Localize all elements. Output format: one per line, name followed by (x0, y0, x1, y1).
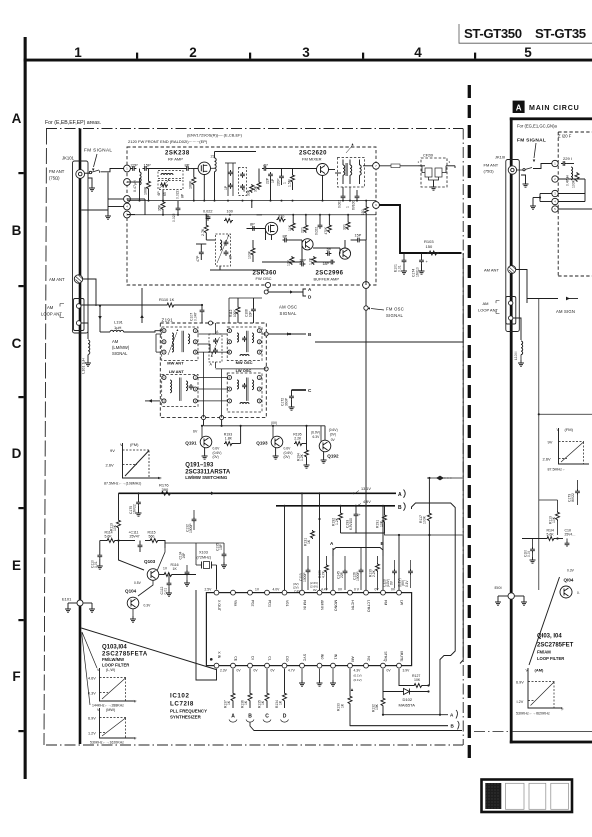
svg-text:SIGNAL: SIGNAL (280, 311, 298, 316)
left page bottom chain border (46, 744, 463, 746)
right AM loop block (506, 297, 516, 325)
svg-text:ST-GT35: ST-GT35 (535, 26, 586, 41)
svg-text:3P: 3P (229, 254, 233, 259)
svg-text:0.022: 0.022 (203, 210, 213, 214)
wire CF201 out (418, 166, 455, 168)
IC102 bottom pins (214, 651, 410, 672)
svg-text:35K: 35K (158, 204, 162, 211)
svg-text:(75Ω): (75Ω) (49, 176, 60, 181)
AM antenna terminal (74, 275, 82, 283)
top bar tick marks (136, 53, 476, 59)
svg-text:6.3V100: 6.3V100 (349, 518, 353, 530)
resistor 220 (301, 224, 308, 233)
long rail to right page (315, 341, 463, 343)
transistor 2SC2996 a (302, 239, 313, 250)
Q191 voltages (213, 447, 222, 460)
header rule (459, 24, 592, 43)
right label FM ANT (484, 163, 499, 174)
right AM terminal (508, 266, 516, 274)
label 0.5V (134, 581, 142, 585)
ABCD bus wire (250, 723, 462, 731)
svg-text:STRQ: STRQ (383, 651, 387, 661)
vertical route R127 (428, 477, 430, 686)
svg-text:0.3V: 0.3V (144, 604, 152, 608)
label FM OSC SIGNAL (367, 307, 404, 319)
wire LW drop (398, 534, 400, 591)
front end misc wires (127, 169, 366, 286)
svg-text:(ENV1729OS(R))–– (E,CB,EF): (ENV1729OS(R))–– (E,CB,EF) (187, 133, 243, 138)
osc coil dashed box (216, 234, 233, 266)
svg-text:L10I I: L10I I (514, 351, 518, 360)
crystal X103 (196, 551, 217, 569)
svg-text:1.2K: 1.2K (309, 257, 313, 265)
svg-text:FM ANT: FM ANT (49, 169, 65, 174)
svg-text:1: 1 (74, 45, 82, 60)
resistor R115 560 (145, 531, 165, 549)
LW tuning graph (88, 668, 137, 708)
right pin column (552, 160, 558, 212)
FM tuning voltage graph (104, 442, 163, 486)
label IC102 LC7218 (170, 693, 207, 720)
capacitor 33P (300, 259, 307, 267)
svg-text:560: 560 (149, 535, 155, 539)
Z191 dashed box (160, 323, 266, 418)
LW OSC pins (228, 376, 262, 404)
left page left border (44, 129, 47, 746)
vertical route A (412, 503, 456, 715)
right FM switch (517, 168, 532, 171)
grid column numbers (74, 45, 532, 60)
connector JK101 body (73, 161, 89, 333)
svg-text:100: 100 (227, 210, 233, 214)
stub A D wires (268, 288, 306, 296)
label AM LOOP ANT (41, 304, 64, 318)
transistor 2SC2620 (317, 164, 329, 176)
FM input switch (89, 170, 99, 174)
capacitor C113 1000P (299, 556, 310, 590)
svg-text:I6V22: I6V22 (571, 493, 575, 502)
transistor Q191 (185, 425, 212, 448)
svg-text:+: + (359, 513, 361, 517)
svg-text:8P: 8P (250, 223, 255, 227)
front-end bus upper (127, 200, 376, 202)
mixer transformer parts (338, 187, 360, 210)
resistor 100K rf (144, 180, 151, 195)
svg-text:D: D (283, 714, 287, 720)
resistor 330 buf (343, 221, 350, 230)
stub B wire (266, 332, 306, 335)
svg-text:P02: P02 (250, 600, 254, 606)
label MW OSC (236, 360, 253, 365)
svg-text:Q193: Q193 (256, 441, 268, 446)
svg-text:1: 1 (283, 182, 287, 184)
capacitor 18P (323, 260, 335, 266)
svg-text:RF AMP: RF AMP (168, 157, 183, 162)
Q192 collector wire (307, 426, 326, 440)
svg-text:E101: E101 (62, 597, 72, 602)
label AM ANT (49, 277, 65, 282)
connector E101 (62, 597, 95, 613)
capacitor 2P (326, 248, 332, 256)
capacitor 8P rf (185, 163, 191, 171)
svg-text:6V: 6V (193, 430, 198, 434)
wire fet drain chain (211, 152, 257, 169)
right jack ground (521, 175, 529, 187)
label JK101 (62, 156, 75, 161)
resistor R194 1.2K (297, 444, 310, 469)
resistor 1.2K buf (309, 256, 316, 265)
resistor R137 1K (224, 669, 235, 708)
svg-text:LOOP FILTER: LOOP FILTER (102, 663, 129, 668)
svg-text:SYNTHESIZER: SYNTHESIZER (170, 715, 202, 720)
svg-text:B: B (398, 505, 402, 511)
svg-text:390P: 390P (285, 397, 289, 406)
svg-text:JK101: JK101 (62, 156, 75, 161)
svg-text:1K: 1K (173, 567, 178, 571)
svg-text:4: 4 (414, 45, 422, 60)
svg-text:E: E (12, 558, 21, 573)
svg-text:0.47μH: 0.47μH (565, 174, 569, 186)
svg-text:MW ANT: MW ANT (167, 361, 184, 366)
right label 0.3V (567, 569, 575, 573)
registration bar frame (482, 780, 573, 813)
svg-text:16V22: 16V22 (133, 504, 137, 514)
FM box input pin 3 (124, 196, 131, 203)
svg-text:5.6K: 5.6K (105, 535, 113, 539)
svg-text:A: A (12, 111, 22, 126)
svg-text:AM ANT: AM ANT (49, 277, 65, 282)
svg-text:B: B (248, 714, 252, 720)
trimmer dashed box rf (239, 168, 247, 196)
ceramic filter CF201 box (418, 154, 451, 188)
label 6V (193, 430, 198, 434)
Q103 Q104 link (130, 580, 153, 622)
svg-text:MONO: MONO (333, 600, 337, 611)
Q103 base wire (119, 541, 166, 572)
resistor R195 2.2K (293, 426, 306, 446)
MW OSC pins (228, 329, 262, 355)
Z191 internal wires (156, 323, 266, 418)
svg-text:330: 330 (343, 224, 347, 230)
svg-text:35K: 35K (254, 185, 258, 192)
svg-text:FM IN: FM IN (302, 600, 306, 610)
right resistor R113 (548, 500, 559, 535)
resistor 150 out (361, 206, 368, 215)
svg-text:33K: 33K (247, 189, 251, 196)
svg-text:15P: 15P (355, 234, 362, 238)
label 2SC2620 FM MIXER (299, 151, 327, 162)
svg-text:A: A (398, 492, 402, 498)
right rail junction (539, 413, 592, 415)
svg-text:144KHz←→288KHz: 144KHz←→288KHz (92, 704, 124, 708)
AM OSC signal label (279, 305, 297, 317)
svg-text:2.6V: 2.6V (543, 457, 552, 462)
svg-text:C: C (12, 336, 22, 351)
capacitor 0.022 lower (172, 206, 180, 222)
MW tuning graph (88, 708, 137, 745)
svg-text:NC: NC (366, 656, 370, 662)
svg-text:3.9V: 3.9V (403, 669, 411, 673)
svg-text:100K: 100K (189, 180, 193, 189)
svg-text:220P: 220P (277, 179, 281, 186)
svg-text:LW: LW (399, 600, 403, 606)
capacitor C193 6.3V100 (346, 505, 361, 533)
transistor Q104 (125, 589, 151, 609)
label 0V q193 (271, 421, 277, 425)
svg-text:4.4V: 4.4V (321, 588, 329, 592)
svg-text:0V: 0V (313, 588, 317, 592)
svg-text:0.01: 0.01 (94, 561, 98, 568)
svg-text:I.2V: I.2V (517, 700, 524, 704)
tuning cap bank 1 (224, 163, 236, 196)
stub C wire (292, 389, 307, 391)
tuning coil dashed box a (158, 171, 183, 179)
svg-text:530KHz←→I620KHz: 530KHz←→I620KHz (516, 712, 550, 716)
svg-text:25V4…: 25V4… (565, 533, 576, 537)
svg-text:0.022: 0.022 (315, 227, 319, 235)
resistor R135 1K (258, 669, 269, 708)
wire L191 to Z191 pin6 (124, 331, 162, 332)
label stub A mid (330, 541, 334, 546)
svg-text:2.3V: 2.3V (220, 669, 228, 673)
title ST-GT350 (464, 26, 522, 41)
wire FM drop (382, 506, 384, 591)
resistor R176 390 (159, 483, 172, 496)
title ST-GT35 (cut) (535, 26, 586, 41)
wire 8P to fet gate (190, 168, 198, 170)
label C119 voltages (398, 560, 413, 588)
resistor R127 10K (399, 669, 430, 688)
label 2SK238 RF AMP (165, 151, 190, 162)
svg-text:6V100: 6V100 (352, 201, 356, 210)
FM box bottom corner pin (265, 282, 270, 287)
svg-text:PLL FREQUENCY: PLL FREQUENCY (170, 709, 207, 714)
svg-text:0.5V: 0.5V (134, 581, 142, 585)
resistor R134 1K (275, 669, 286, 708)
right label 22P (561, 156, 574, 166)
mixer bias parts (277, 174, 295, 187)
svg-text:(LM/MW): (LM/MW) (112, 345, 130, 350)
wire 15P to 8P (148, 168, 185, 170)
label C120 voltages (383, 560, 397, 588)
resistor 35K (158, 201, 166, 211)
svg-text:5: 5 (524, 45, 532, 60)
stub wire A bottom (383, 714, 448, 716)
svg-text:47P: 47P (196, 255, 200, 262)
label LW OSC (236, 368, 252, 373)
svg-text:LOOP ANT: LOOP ANT (478, 308, 498, 313)
IN0 ground (317, 669, 323, 687)
svg-text:(AM): (AM) (535, 668, 545, 673)
IC left loop wire (196, 569, 217, 681)
MW ANT pins (162, 329, 197, 355)
svg-text:4.7V: 4.7V (288, 669, 296, 673)
svg-text:1.2K: 1.2K (300, 453, 304, 461)
rail brace (404, 490, 406, 511)
svg-text:FM ANT: FM ANT (484, 163, 499, 168)
front-end bus lower (127, 214, 376, 216)
wire pin4 ground (105, 213, 111, 219)
label LW ANT (169, 369, 185, 374)
right loop top wires (539, 496, 558, 500)
svg-text:BUFFER AMP: BUFFER AMP (314, 277, 340, 282)
svg-text:D102: D102 (403, 697, 413, 702)
svg-text:FM MIXER: FM MIXER (302, 157, 322, 162)
right wire to pins (533, 164, 552, 169)
svg-text:0.002: 0.002 (338, 200, 342, 208)
right capacitor C173 (568, 480, 580, 505)
svg-text:100K: 100K (248, 250, 252, 259)
svg-text:A: A (231, 714, 235, 720)
svg-text:2.6V: 2.6V (106, 463, 115, 468)
right label Q103 block (537, 634, 574, 662)
svg-text:AM OSC: AM OSC (279, 305, 297, 310)
FM box bottom right pin (363, 282, 370, 289)
svg-text:1000P: 1000P (356, 571, 360, 581)
svg-text:FM SIGNAL: FM SIGNAL (84, 148, 112, 153)
svg-text:(0V): (0V) (284, 455, 290, 459)
diagonal wire to X IN (81, 628, 216, 670)
ABCD underbraces (229, 720, 289, 723)
FM OSC signal wire (364, 288, 368, 592)
capacitor 47P (196, 250, 204, 262)
LW ANT arrow wire (145, 399, 160, 403)
svg-text:3B: 3B (242, 188, 246, 192)
resistor R113 10K (109, 493, 120, 541)
capacitor 15P out (355, 234, 362, 243)
IN1 ground (330, 669, 336, 687)
svg-text:AM: AM (483, 301, 489, 306)
FM box mid right pin (373, 202, 380, 209)
capacitor C132 1000P (185, 510, 196, 533)
inductor 22 drain (211, 152, 217, 177)
LW ANT pins (162, 376, 197, 404)
FM box input pin 5 (124, 211, 131, 218)
right label JK101 (495, 155, 505, 160)
stub bracket A B (333, 548, 383, 557)
svg-text:1P: 1P (224, 185, 228, 190)
registration patch 3 (529, 783, 546, 809)
resistor R130 2.2K (369, 556, 380, 590)
right wire loop lower (513, 318, 521, 340)
capacitor C134 16P (179, 551, 191, 586)
stub wire B bottom (350, 725, 448, 727)
svg-text:1.2V: 1.2V (88, 732, 96, 736)
svg-text:4.6V: 4.6V (88, 677, 96, 681)
resistor R133 1K (337, 669, 448, 726)
Q192 voltages (311, 428, 338, 442)
Q191 emitter ground (202, 448, 208, 460)
areas note (45, 120, 101, 126)
right loop pin lower (509, 316, 513, 320)
wire switch to FM box pin 1 (101, 169, 125, 172)
svg-text:(0.1V): (0.1V) (354, 678, 362, 682)
svg-text:2120 FW FRONT END (RALD02I)···: 2120 FW FRONT END (RALD02I)········(EP) (128, 139, 208, 144)
capacitor 8P osc gate (250, 223, 256, 231)
svg-text:6.3V: 6.3V (313, 435, 321, 439)
thick IF output wire (379, 205, 461, 253)
label Q191-193 block (185, 463, 231, 481)
IC top pin voltages small (293, 581, 396, 593)
svg-text:(0.1V): (0.1V) (354, 674, 362, 678)
registration solid patch (485, 783, 501, 809)
svg-text:(72MHz): (72MHz) (197, 556, 212, 560)
svg-text:4.3V: 4.3V (354, 669, 362, 673)
bottom stub braces (456, 710, 459, 730)
page fold divider (468, 85, 471, 763)
svg-text:7.2V: 7.2V (294, 589, 300, 593)
resistor 35K (254, 181, 261, 192)
svg-text:R110 1K: R110 1K (159, 297, 175, 302)
svg-text:10K: 10K (375, 703, 379, 710)
capacitor C107 0.047 (190, 305, 205, 323)
label Z191 (162, 318, 174, 323)
capacitor C126 1000P (352, 548, 363, 590)
Q193 emitter ground (273, 448, 279, 460)
right label AM ANT (484, 268, 499, 273)
svg-text:MAIN CIRCU: MAIN CIRCU (529, 104, 580, 112)
mixer gate caps 4P (262, 163, 275, 185)
capacitor C135 15P (216, 543, 228, 568)
capacitor C110 0.01 (91, 541, 103, 570)
svg-text:FM/LW/MW: FM/LW/MW (102, 657, 124, 662)
registration patch 2 (506, 783, 525, 809)
resistor 100K osc (248, 247, 256, 259)
diode D102 MA165TA (383, 689, 430, 708)
rail junction dots (301, 492, 384, 507)
resistor R132 10K (371, 669, 385, 716)
wire loop upper junction (99, 305, 101, 307)
label AM LM MW SIGNAL (112, 339, 130, 356)
right long wire down (538, 299, 540, 591)
svg-text:0.: 0. (577, 591, 580, 595)
resistor R193 1.8K (224, 426, 241, 446)
svg-text:(FM): (FM) (565, 427, 574, 432)
Z191 edge junctions (202, 290, 269, 420)
MW ANT coils (168, 329, 190, 355)
svg-text:10K: 10K (552, 516, 556, 523)
svg-text:Vaa: Vaa (233, 600, 237, 606)
mid distribution wire (385, 533, 463, 535)
svg-text:4.9V: 4.9V (363, 500, 371, 504)
SYC ground (299, 669, 305, 687)
svg-text:HCTR: HCTR (350, 600, 354, 610)
FM box input pin 4 (124, 203, 131, 210)
svg-text:8P: 8P (181, 193, 185, 198)
transistor Q103 (144, 559, 168, 580)
right graph V AM (516, 668, 564, 716)
top margin grid bar (24, 59, 592, 62)
resistor 10K buf2 (287, 256, 294, 266)
right areas note (517, 124, 557, 129)
label 2SK360 FW OSC (253, 271, 277, 282)
label stub B (308, 332, 312, 337)
right wire AM to loop (516, 270, 527, 304)
trim labels 6P 65 (157, 191, 167, 196)
label rail B (398, 505, 402, 511)
capacitor E101 0.01 (401, 253, 407, 274)
transistor Q192 (319, 426, 339, 459)
svg-text:ST-GT350: ST-GT350 (464, 26, 522, 41)
svg-text:A: A (516, 104, 522, 113)
svg-text:(MW): (MW) (106, 708, 116, 712)
svg-text:AM IN: AM IN (320, 600, 324, 610)
right label Z120 (558, 134, 572, 139)
mixer out transformer (338, 143, 373, 187)
FM antenna jack (76, 170, 85, 179)
svg-text:X OUT: X OUT (217, 600, 221, 612)
capacitor C172 390P (281, 390, 295, 410)
